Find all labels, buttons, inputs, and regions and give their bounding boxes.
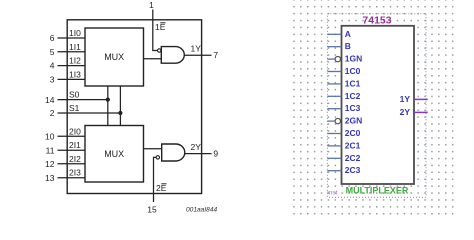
wire S1 vertical between MUX1 and MUX2 [119, 86, 121, 126]
pin stub 1GN [327, 58, 335, 60]
svg-text:14: 14 [45, 95, 55, 105]
svg-text:MULTIPLEXER: MULTIPLEXER [346, 186, 409, 196]
svg-text:3: 3 [50, 74, 55, 84]
svg-text:1I1: 1I1 [69, 42, 81, 52]
svg-text:12: 12 [45, 159, 55, 169]
svg-text:S0: S0 [69, 90, 80, 100]
svg-text:2C2: 2C2 [345, 153, 361, 163]
svg-text:001aaI844: 001aaI844 [186, 207, 218, 214]
svg-text:1C1: 1C1 [345, 78, 361, 88]
svg-text:2: 2 [50, 108, 55, 118]
svg-text:2C0: 2C0 [345, 128, 361, 138]
wire 2I0 [58, 135, 86, 137]
wire 2I3 [58, 177, 86, 179]
svg-text:1GN: 1GN [345, 54, 362, 64]
svg-text:1I3: 1I3 [69, 69, 81, 79]
pin stub 2GN [327, 120, 335, 122]
svg-text:A: A [345, 29, 351, 39]
svg-text:7: 7 [213, 50, 218, 60]
svg-text:6: 6 [50, 33, 55, 43]
pin stub 2Y [414, 111, 428, 113]
svg-text:2I2: 2I2 [69, 154, 81, 164]
and-gate G2 (2Y) [156, 144, 185, 161]
pin stub B [327, 46, 341, 48]
svg-text:10: 10 [45, 132, 55, 142]
wire MUX2 output to gate G2 [144, 148, 162, 150]
wire MUX1 output to gate G1 [144, 58, 162, 60]
svg-text:5: 5 [50, 47, 55, 57]
pin stub 1C3 [327, 108, 341, 110]
wire 1I3 [58, 78, 86, 80]
svg-text:1I2: 1I2 [69, 56, 81, 66]
pin stub 2C2 [327, 157, 341, 159]
symbol U1 74153 body [342, 26, 415, 184]
wire S0 vertical between MUX1 and MUX2 [107, 86, 109, 126]
svg-text:9: 9 [213, 149, 218, 159]
inversion bubble on 1GN [335, 56, 340, 61]
wire S0 [58, 99, 108, 101]
multiplexer MUX2 box [85, 126, 144, 183]
svg-text:11: 11 [46, 145, 55, 155]
svg-text:2I0: 2I0 [69, 126, 81, 136]
wire gate G2 output to pin 9 [185, 153, 212, 155]
svg-text:74153: 74153 [362, 15, 391, 27]
svg-text:1Y: 1Y [191, 44, 202, 54]
pin stub 1Y [414, 98, 428, 100]
svg-text:S1: S1 [69, 103, 80, 113]
junction dot S0 [106, 98, 110, 102]
svg-text:1E: 1E [155, 22, 166, 32]
svg-text:1Y: 1Y [400, 94, 411, 104]
svg-text:2E: 2E [156, 183, 167, 193]
pin stub A [327, 33, 341, 35]
wire gate G1 output to pin 7 [185, 54, 212, 56]
svg-text:2I1: 2I1 [69, 140, 81, 150]
wire 1I2 [58, 65, 86, 67]
svg-text:4: 4 [50, 61, 55, 71]
svg-text:2I3: 2I3 [69, 168, 81, 178]
svg-text:B: B [345, 41, 351, 51]
svg-text:1C3: 1C3 [345, 103, 361, 113]
pin stub 1C0 [327, 71, 341, 73]
wire 1I0 [58, 37, 86, 39]
multiplexer MUX1 box [85, 28, 144, 86]
pin stub 2C1 [327, 145, 341, 147]
svg-text:2C1: 2C1 [345, 140, 361, 150]
pin stub 2C0 [327, 133, 341, 135]
pin stub 1C2 [327, 95, 341, 97]
svg-text:1C0: 1C0 [345, 66, 361, 76]
pin stub 2C3 [327, 170, 341, 172]
overline of 2E [161, 183, 166, 184]
wire pin15 2E vertical [154, 157, 157, 202]
overline of 1E [160, 22, 165, 23]
wire 2I2 [58, 163, 86, 165]
IC boundary box [67, 20, 201, 194]
pin stub 1C1 [327, 83, 341, 85]
and-gate G1 (1Y) [158, 47, 185, 64]
inverter bubble on G1 enable input [158, 49, 161, 52]
svg-text:13: 13 [45, 173, 55, 183]
svg-text:MUX: MUX [104, 149, 124, 159]
svg-text:2Y: 2Y [400, 107, 411, 117]
svg-text:MUX: MUX [104, 52, 124, 62]
svg-text:1: 1 [149, 0, 154, 10]
junction dot S1 [118, 111, 122, 115]
svg-text:1I0: 1I0 [69, 28, 81, 38]
svg-text:1C2: 1C2 [345, 91, 361, 101]
schematic editor grid background [293, 0, 456, 217]
inverter bubble on G2 enable input [156, 156, 159, 159]
wire pin1 1E vertical [153, 10, 158, 51]
svg-text:15: 15 [147, 205, 157, 215]
svg-text:2GN: 2GN [345, 116, 362, 126]
inversion bubble on 2GN [335, 118, 340, 123]
svg-text:2C3: 2C3 [345, 165, 361, 175]
svg-text:inst: inst [327, 190, 337, 197]
wire S1 [58, 112, 121, 114]
selection dashed box [327, 14, 426, 197]
wire 1I1 [58, 51, 86, 53]
wire 2I1 [58, 149, 86, 151]
svg-text:2Y: 2Y [191, 142, 202, 152]
